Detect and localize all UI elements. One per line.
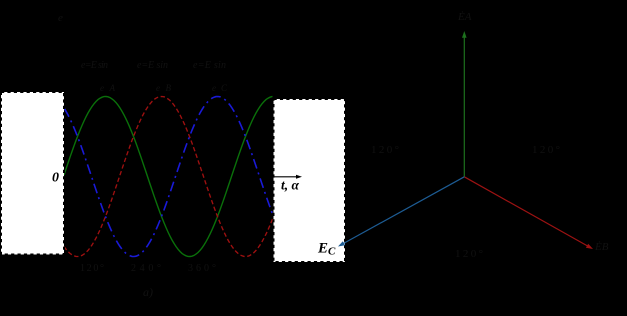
waveform curve eB (red dashed)	[64, 97, 273, 257]
svg-text:e: e	[58, 12, 63, 24]
svg-text:ĖA: ĖA	[457, 11, 472, 23]
svg-text:a): a)	[143, 285, 153, 299]
left white placeholder box	[1, 92, 64, 255]
phasor EA (green, up)	[463, 37, 465, 177]
waveform curve eA (green solid)	[64, 97, 273, 257]
phasor EB (red, lower right)	[464, 177, 588, 247]
right white placeholder box	[274, 99, 346, 262]
t,a axis arrow on right box	[275, 176, 298, 178]
svg-text:t, α: t, α	[281, 178, 300, 193]
svg-text:e=E sin: e=E sin	[193, 60, 226, 71]
svg-text:e=E sin: e=E sin	[81, 60, 108, 71]
phasor EC (blue, lower left)	[343, 177, 465, 244]
svg-text:ĖB: ĖB	[594, 241, 609, 253]
waveform curve eC (blue dash-dot)	[64, 97, 273, 257]
svg-text:e=E sin: e=E sin	[137, 60, 168, 71]
svg-text:0: 0	[52, 171, 59, 186]
